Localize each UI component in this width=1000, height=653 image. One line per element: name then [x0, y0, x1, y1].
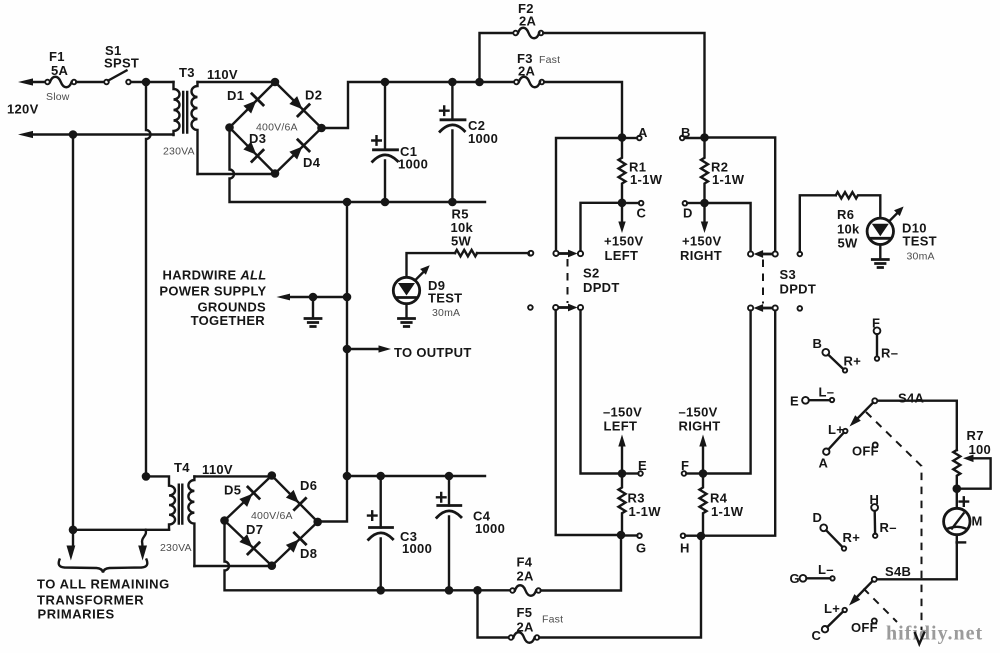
meter minus sign — [957, 541, 966, 543]
wire T4 secondary 110V to bridge D5 top — [194, 475, 271, 477]
svg-text:hifidiy.net: hifidiy.net — [886, 623, 983, 645]
resistor R3 — [619, 474, 626, 536]
wire node B to S3 contact — [705, 138, 776, 252]
wire S4B common to meter — [877, 578, 957, 580]
svg-text:400V/6A: 400V/6A — [256, 122, 298, 134]
resistor R1 — [619, 138, 626, 203]
diode D6 — [284, 488, 306, 510]
label C4 value — [473, 509, 505, 537]
wire R6 feed from S3 — [800, 195, 836, 251]
fuse F4 — [510, 585, 541, 596]
arrow -150V LEFT — [618, 435, 625, 470]
node F — [682, 469, 708, 478]
svg-text:S2: S2 — [583, 266, 600, 281]
node bridge bottom corner — [271, 169, 280, 178]
node bus F5 tap — [473, 586, 482, 595]
node ground bus C2 — [448, 198, 457, 207]
svg-text:G: G — [790, 571, 800, 586]
svg-text:Slow: Slow — [46, 91, 70, 103]
diode D2 — [288, 94, 310, 116]
svg-text:R6: R6 — [837, 207, 854, 222]
svg-text:R+: R+ — [844, 354, 862, 369]
labels S4B contacts — [790, 492, 897, 643]
node E — [618, 469, 643, 478]
diode D7 — [238, 532, 260, 554]
svg-text:2A: 2A — [519, 14, 537, 29]
svg-text:D8: D8 — [300, 546, 317, 561]
svg-text:1-1W: 1-1W — [629, 504, 662, 519]
svg-text:+150V: +150V — [682, 234, 721, 249]
switch S4B contact G-L- — [800, 575, 835, 582]
node +rail C2 tap — [448, 78, 457, 87]
diode D8 — [284, 533, 306, 555]
svg-text:R–: R– — [881, 346, 898, 361]
svg-text:S4A: S4A — [898, 391, 925, 406]
node H — [681, 532, 706, 541]
fuse F5 — [509, 632, 540, 643]
svg-text:+150V: +150V — [604, 234, 643, 249]
svg-text:D2: D2 — [305, 88, 322, 103]
svg-text:110V: 110V — [202, 462, 233, 477]
node T4 primary top junction — [142, 472, 151, 481]
svg-text:TOGETHER: TOGETHER — [191, 313, 266, 328]
svg-text:100: 100 — [969, 442, 992, 457]
node ground bus center riser — [343, 198, 352, 207]
switch S2 pole2 — [528, 304, 583, 312]
svg-text:2A: 2A — [518, 64, 536, 79]
note TO ALL REMAINING — [37, 577, 170, 622]
svg-text:A: A — [819, 456, 829, 471]
svg-text:HARDWIRE ALL: HARDWIRE ALL — [163, 268, 267, 283]
switch S3 linkage dashed — [762, 260, 764, 304]
LED D10 — [867, 207, 904, 245]
svg-text:2A: 2A — [517, 620, 535, 635]
switch S4A contact A-L+ — [823, 429, 847, 455]
arrow -150V RIGHT — [699, 435, 706, 470]
node bridge2 bottom corner — [268, 561, 277, 570]
svg-text:TEST: TEST — [428, 291, 462, 306]
svg-text:TEST: TEST — [903, 234, 937, 249]
wire S1 to T3 primary top — [131, 81, 174, 83]
svg-text:D: D — [683, 206, 693, 221]
svg-text:G: G — [636, 541, 646, 556]
svg-text:1000: 1000 — [468, 131, 498, 146]
svg-text:H: H — [680, 541, 690, 556]
switch S3 pole1 — [748, 250, 802, 258]
svg-text:110V: 110V — [207, 67, 238, 82]
svg-text:Fast: Fast — [542, 614, 563, 626]
wire neutral feed down to T4 bottom — [72, 135, 74, 530]
label S2 — [583, 266, 620, 296]
svg-text:H: H — [870, 492, 880, 507]
ground symbol power supply — [305, 297, 321, 327]
svg-text:Fast: Fast — [539, 54, 560, 66]
wire hot feed down to T4 with hop — [146, 82, 151, 476]
label R3 value — [628, 491, 662, 520]
wire S2 pole2 right contact down to node E — [581, 310, 623, 473]
arrow linkage end — [915, 633, 924, 645]
wire F4 output to node G leg — [541, 535, 621, 591]
node C — [618, 199, 644, 208]
label -150V RIGHT — [679, 405, 721, 434]
switch S4A OFF contact — [873, 443, 878, 448]
label +150V RIGHT — [680, 234, 722, 264]
wire main center riser — [318, 202, 347, 522]
svg-text:F: F — [872, 316, 880, 331]
svg-text:B: B — [813, 336, 823, 351]
arrow to remaining primaries left — [67, 530, 76, 561]
capacitor C4 — [437, 476, 461, 590]
svg-text:400V/6A: 400V/6A — [251, 510, 293, 522]
label S3 — [780, 267, 817, 297]
node D — [683, 199, 709, 208]
svg-text:T4: T4 — [174, 460, 190, 475]
svg-text:R+: R+ — [843, 530, 861, 545]
wire S3 pole2 left contact down to node F — [703, 311, 751, 474]
label F3 value — [517, 51, 560, 79]
svg-text:5W: 5W — [838, 236, 859, 251]
svg-text:C: C — [637, 206, 647, 221]
wire T4 primary bottom to neutral — [73, 529, 169, 531]
switch S4 ganged linkage dashed — [866, 412, 922, 630]
svg-text:PRIMARIES: PRIMARIES — [38, 607, 115, 622]
svg-text:L–: L– — [819, 385, 835, 400]
svg-text:F1: F1 — [49, 49, 65, 64]
node bridge2 top corner — [268, 471, 277, 480]
switch S4A wiper arm — [850, 398, 878, 426]
switch S4B contact D-R+ — [820, 524, 846, 550]
svg-text:OFF: OFF — [851, 620, 878, 635]
switch S4B wiper arm — [849, 577, 877, 606]
potentiometer R7 — [953, 450, 990, 489]
brace to all remaining — [59, 560, 148, 573]
wire minus rail top — [347, 475, 485, 477]
labels S4A contacts — [790, 316, 898, 471]
switch S4B linkage dashed — [864, 589, 898, 623]
switch S4B contact H-R- — [871, 504, 878, 538]
fuse F1 — [45, 77, 76, 88]
switch S4B OFF contact — [872, 618, 877, 623]
wire F5 output to node H leg — [539, 536, 701, 638]
meter plus sign — [960, 497, 969, 506]
svg-text:R–: R– — [880, 520, 897, 535]
node bus C4 bottom — [445, 586, 454, 595]
label F1 value — [46, 49, 70, 103]
ground below D9 — [399, 304, 415, 327]
transformer T3 — [174, 82, 198, 174]
bridge D5-D8 diamond — [225, 476, 318, 566]
svg-text:SPST: SPST — [104, 56, 139, 71]
switch S2 pole1 — [528, 250, 583, 258]
svg-text:E: E — [638, 458, 647, 473]
svg-text:5A: 5A — [51, 63, 69, 78]
label T4 — [160, 460, 233, 554]
svg-text:TRANSFORMER: TRANSFORMER — [37, 593, 144, 608]
node ground bus C1 — [381, 198, 390, 207]
node B — [680, 133, 709, 142]
svg-text:1000: 1000 — [475, 521, 505, 536]
node bus C3 bottom — [376, 586, 385, 595]
diode D4 — [288, 140, 310, 162]
node bridge2 right corner — [313, 518, 322, 527]
svg-text:M: M — [972, 514, 983, 529]
diode D1 — [242, 94, 264, 116]
label D9 — [428, 278, 462, 319]
label R1 value — [629, 160, 663, 188]
node S1-T3 junction — [142, 78, 151, 87]
label C2 value — [468, 118, 498, 146]
label R5 value — [451, 207, 474, 249]
svg-text:5W: 5W — [451, 234, 472, 249]
svg-text:30mA: 30mA — [907, 251, 935, 263]
svg-text:–150V: –150V — [603, 405, 642, 420]
switch S3 pole2 — [748, 304, 802, 312]
svg-text:230VA: 230VA — [163, 146, 195, 158]
node TO OUTPUT junction — [343, 345, 352, 354]
node +rail F2 tap — [475, 78, 484, 87]
label R4 value — [710, 491, 744, 520]
capacitor C2 — [440, 82, 465, 202]
label C1 value — [398, 144, 428, 172]
switch S4A contact B-R+ — [822, 349, 847, 373]
label -150V LEFT — [603, 405, 642, 434]
capacitor C1 — [372, 82, 397, 202]
svg-text:1-1W: 1-1W — [712, 172, 745, 187]
bridge D1-D4 diamond — [230, 82, 322, 174]
svg-text:10k: 10k — [837, 222, 860, 237]
label R6 value — [837, 207, 860, 251]
wire S2 pole2 wiper down to node G — [556, 310, 621, 535]
node rail C3 top — [376, 472, 385, 481]
svg-text:2A: 2A — [517, 569, 535, 584]
node ground arrow junction — [309, 293, 318, 302]
svg-text:RIGHT: RIGHT — [679, 419, 721, 434]
svg-text:TO ALL REMAINING: TO ALL REMAINING — [37, 577, 170, 592]
svg-text:E: E — [790, 394, 799, 409]
svg-text:POWER SUPPLY: POWER SUPPLY — [159, 284, 266, 299]
switch S4A contact F-R- — [874, 327, 881, 360]
svg-text:LEFT: LEFT — [604, 419, 638, 434]
svg-text:A: A — [638, 125, 648, 140]
svg-text:1000: 1000 — [398, 157, 428, 172]
svg-text:D5: D5 — [224, 483, 241, 498]
svg-text:L+: L+ — [828, 422, 844, 437]
resistor R4 — [700, 474, 707, 537]
arrow to remaining primaries right — [138, 530, 147, 561]
transformer T4 — [146, 476, 194, 566]
svg-text:D4: D4 — [303, 155, 321, 170]
wire F2 branch riser — [480, 33, 516, 82]
svg-text:L+: L+ — [824, 601, 840, 616]
wire node D to S3 pole1 — [705, 203, 751, 251]
wire bridge minus corner down to ground bus with hop — [230, 128, 486, 203]
svg-text:30mA: 30mA — [432, 307, 460, 319]
label R7 value — [967, 428, 992, 457]
node bridge2 left corner — [220, 516, 229, 525]
svg-text:DPDT: DPDT — [583, 280, 620, 295]
resistor R5 — [407, 250, 534, 277]
label F2 value — [518, 1, 537, 29]
svg-text:120V: 120V — [7, 102, 39, 117]
switch S1 SPST — [104, 71, 131, 85]
label C3 value — [400, 529, 432, 556]
wire F1 to S1 — [76, 81, 104, 83]
wire node C to S2 contact — [581, 203, 623, 251]
fuse F2 — [513, 28, 543, 39]
wire S3 pole2 right contact down to node H — [701, 311, 775, 536]
label D10 — [902, 221, 937, 263]
node rail C4 top — [445, 472, 454, 481]
switch S2 linkage dashed — [567, 259, 569, 303]
svg-text:RIGHT: RIGHT — [680, 248, 722, 263]
svg-text:F4: F4 — [517, 555, 533, 570]
arrow +150V LEFT — [618, 207, 625, 233]
svg-text:230VA: 230VA — [160, 542, 192, 554]
node R7 bottom — [953, 484, 962, 493]
wire T3 secondary bottom to bridge bottom — [198, 173, 276, 175]
arrow TO OUTPUT — [347, 345, 391, 352]
label R2 value — [711, 160, 745, 188]
svg-text:C: C — [812, 628, 822, 643]
node bridge left corner — [225, 123, 234, 132]
svg-text:R7: R7 — [967, 428, 984, 443]
node bridge right corner — [317, 124, 326, 133]
node +rail C1 tap — [381, 78, 390, 87]
LED D9 — [393, 265, 429, 303]
svg-text:B: B — [681, 125, 691, 140]
svg-text:1-1W: 1-1W — [630, 172, 663, 187]
svg-text:S4B: S4B — [885, 564, 911, 579]
wire S4A common to R7 — [878, 401, 957, 450]
switch S4A contact E-L- — [802, 397, 834, 404]
svg-text:D1: D1 — [227, 88, 244, 103]
switch S4B contact C-L+ — [822, 608, 847, 633]
wire F3 output to A riser — [544, 82, 622, 138]
fuse F3 — [514, 77, 544, 88]
wire F5 branch — [478, 590, 509, 637]
ground below D10 — [872, 245, 888, 268]
wire T4 secondary bottom to bridge bottom — [194, 565, 271, 567]
node bridge top corner — [271, 78, 280, 87]
node G — [617, 531, 642, 540]
svg-text:F: F — [681, 458, 689, 473]
capacitor C3 — [368, 476, 393, 590]
label F4 value — [517, 555, 535, 584]
wire bridge plus corner up to +rail — [322, 82, 517, 128]
svg-text:T3: T3 — [179, 65, 195, 80]
node main riser ground row — [343, 293, 352, 302]
node A — [618, 133, 642, 142]
wire node A to S2 pole1 — [556, 138, 622, 251]
svg-text:L–: L– — [818, 562, 834, 577]
wire F2 output to B riser — [543, 33, 704, 138]
arrow +150V RIGHT — [701, 207, 708, 233]
svg-text:1-1W: 1-1W — [711, 504, 744, 519]
svg-text:DPDT: DPDT — [780, 282, 817, 297]
svg-text:1000: 1000 — [402, 541, 432, 556]
wire bridge2 left corner down to minus bus with hop — [225, 521, 513, 591]
wire 120V neutral lead with left arrow — [18, 131, 174, 138]
node T4 primary bottom junction — [69, 526, 78, 535]
resistor R6 — [836, 192, 881, 218]
wire 120V hot lead with left arrow — [18, 78, 47, 85]
diode D5 — [238, 487, 260, 509]
label F5 value — [517, 605, 564, 635]
label T3 — [163, 65, 238, 158]
svg-text:D6: D6 — [300, 478, 317, 493]
label +150V LEFT — [604, 234, 643, 264]
resistor R2 — [701, 138, 708, 203]
ground arrow HARDWIRE note — [277, 294, 348, 301]
svg-text:LEFT: LEFT — [605, 248, 639, 263]
node neutral junction — [69, 130, 78, 139]
svg-text:F5: F5 — [517, 605, 533, 620]
meter M — [944, 489, 970, 580]
diode D3 — [242, 140, 264, 162]
svg-text:D7: D7 — [246, 522, 263, 537]
label S1 — [104, 43, 139, 71]
svg-text:S3: S3 — [780, 267, 797, 282]
node center riser minus rail tap — [343, 472, 352, 481]
svg-text:D: D — [813, 510, 823, 525]
svg-text:–150V: –150V — [679, 405, 718, 420]
wire T3 secondary 110V to bridge top — [198, 81, 276, 83]
note HARDWIRE grounds — [159, 268, 266, 329]
svg-text:TO OUTPUT: TO OUTPUT — [394, 345, 472, 360]
svg-text:OFF: OFF — [852, 444, 879, 459]
